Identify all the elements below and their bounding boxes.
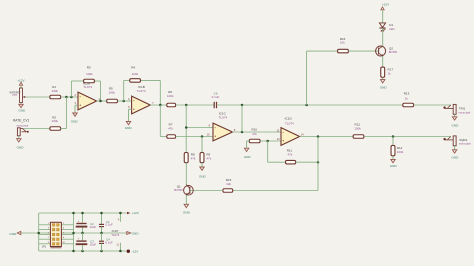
wire R12 to SQR jack	[364, 136, 451, 138]
svg-text:0.1uF: 0.1uF	[105, 223, 113, 227]
wire R11 branch	[268, 141, 286, 162]
wire C6 to rail	[217, 104, 404, 106]
node junction R14 branch	[392, 135, 395, 138]
svg-text:+12V: +12V	[382, 3, 390, 7]
capacitor C4	[99, 233, 113, 251]
svg-text:RATE_CV1: RATE_CV1	[13, 118, 29, 122]
svg-text:0.1uF: 0.1uF	[212, 95, 220, 99]
svg-text:10uF: 10uF	[90, 243, 97, 247]
wire header left vertical	[38, 213, 40, 251]
ground (SQR1)	[451, 146, 459, 160]
op-amp IC1C	[213, 112, 233, 141]
ground (Q1)	[184, 204, 188, 207]
wire header right vertical	[73, 213, 75, 251]
feedback wire R3	[71, 81, 100, 101]
svg-text:BC550: BC550	[174, 188, 183, 192]
svg-text:100k: 100k	[397, 150, 404, 154]
svg-text:47k: 47k	[191, 157, 196, 161]
svg-text:GND: GND	[199, 174, 207, 178]
node junction R4 branch	[122, 100, 125, 103]
op-amp IC1D	[281, 116, 300, 145]
node junction hdr right top	[72, 212, 75, 215]
svg-text:BC550: BC550	[389, 50, 398, 54]
node junction integrator out	[241, 104, 244, 107]
svg-text:GND: GND	[17, 146, 25, 150]
svg-text:GND: GND	[125, 126, 133, 130]
wire LED to Q2 collector	[382, 28, 384, 46]
wire Q1 emitter	[185, 195, 187, 204]
node junction R2 branch	[65, 96, 68, 99]
ground (TRI1)	[451, 114, 459, 127]
svg-text:TL074: TL074	[83, 85, 92, 89]
wire +12V rail	[39, 212, 127, 214]
connector RATE_CV1 jack	[13, 118, 29, 135]
node junction R3 return	[99, 100, 102, 103]
wire R16 to Q2 base	[348, 50, 378, 52]
wire Q2 emitter to R17	[382, 56, 384, 67]
wire R13 to TRI jack	[414, 104, 451, 106]
op-amp IC1B	[132, 85, 151, 114]
supply GND (rail)	[127, 231, 139, 235]
node junction IC1B out	[159, 104, 162, 107]
node junction hdr right mid	[72, 232, 75, 235]
node junction -in	[185, 126, 188, 129]
node junction C1 top	[100, 212, 103, 215]
ground (power left)	[9, 231, 20, 236]
svg-text:+12V: +12V	[132, 211, 140, 215]
resistor R9	[200, 137, 212, 163]
resistor R10 labels	[251, 128, 257, 136]
supply +12V (LED)	[381, 3, 390, 23]
svg-text:GND: GND	[244, 155, 252, 159]
wire R11 to out	[296, 161, 318, 163]
node junction out to C6	[241, 131, 244, 134]
svg-text:100k: 100k	[51, 89, 58, 93]
wire R6 to C6	[176, 104, 215, 106]
capacitor C6	[212, 91, 220, 108]
ground (IC1A +in)	[71, 105, 79, 123]
svg-text:GND: GND	[183, 210, 191, 214]
connector TRI1 jack	[443, 104, 471, 114]
capacitor C2	[76, 213, 97, 233]
node junction C1 mid	[100, 232, 103, 235]
svg-text:47k: 47k	[287, 153, 292, 157]
op-amp power IC1P	[111, 213, 120, 251]
resistor R14	[391, 137, 404, 156]
resistor R13	[403, 91, 414, 106]
wire IC1C out	[232, 131, 281, 133]
transistor Q2	[376, 46, 398, 56]
wire base rail	[233, 190, 318, 192]
ground (Q2)	[380, 77, 388, 89]
node junction IC1P bot	[119, 250, 122, 253]
svg-text:LED: LED	[389, 27, 394, 31]
resistor R10	[249, 139, 260, 143]
resistor R8	[184, 153, 196, 163]
svg-text:100k: 100k	[108, 90, 115, 94]
wire IC1D out	[300, 136, 353, 138]
svg-text:100k: 100k	[167, 94, 174, 98]
node junction R11/Q1 branch	[317, 161, 320, 164]
node junction R9 branch	[201, 135, 204, 138]
node junction GND left	[37, 232, 40, 235]
svg-text:1k: 1k	[405, 97, 409, 101]
svg-text:GND: GND	[132, 231, 140, 235]
wire R1 to IC1A	[61, 96, 78, 98]
svg-text:JP1: JP1	[42, 246, 47, 249]
wire GND rail	[21, 232, 127, 234]
svg-text:GND: GND	[71, 119, 79, 123]
svg-text:+12V: +12V	[17, 78, 25, 82]
svg-text:GND: GND	[380, 86, 388, 90]
node junction C2 mid	[81, 232, 84, 235]
node junction R3 branch	[70, 96, 73, 99]
resistor R15	[223, 178, 233, 192]
wire R5 to IC1B	[118, 100, 132, 102]
resistor R11	[286, 149, 296, 164]
svg-text:TL074: TL074	[285, 122, 294, 126]
svg-text:GND: GND	[451, 156, 459, 160]
node junction C2 top	[81, 212, 84, 215]
ground (R9)	[199, 163, 207, 179]
node junction hdr right bottom	[72, 250, 75, 253]
connector SQR1 jack	[443, 136, 471, 146]
resistor R1	[50, 85, 61, 99]
wire R7 to IC1C +in	[176, 136, 214, 138]
resistor R12	[353, 123, 364, 139]
wire jack to R2	[23, 128, 50, 130]
resistor R5	[107, 86, 118, 102]
svg-text:100k: 100k	[354, 127, 361, 131]
op-amp IC1A	[78, 81, 97, 110]
svg-text:GND: GND	[9, 232, 17, 236]
svg-text:GND: GND	[390, 164, 398, 168]
resistor R16	[338, 37, 349, 53]
svg-text:-12V: -12V	[132, 250, 139, 254]
ground (R14)	[390, 156, 398, 168]
supply +12V (pot)	[17, 78, 25, 88]
svg-text:R4: R4	[131, 66, 135, 70]
wire tri to R16	[307, 51, 338, 105]
svg-text:47k: 47k	[206, 157, 211, 161]
connector JP1 power header	[42, 222, 66, 248]
ground (pot)	[18, 103, 26, 113]
ground (IC1B +in)	[125, 109, 133, 130]
svg-text:TRI1: TRI1	[459, 106, 466, 110]
wire junction up to C6	[241, 105, 243, 132]
wire IC1C -in branch	[186, 105, 213, 153]
svg-text:R13: R13	[404, 91, 410, 95]
capacitor C1	[99, 213, 113, 233]
node junction R11 branch	[266, 140, 269, 143]
supply -12V (rail)	[127, 250, 140, 254]
svg-text:TL074: TL074	[219, 116, 228, 120]
ground (R10)	[244, 141, 252, 159]
svg-text:47k: 47k	[252, 132, 257, 136]
node junction to LED driver	[305, 104, 308, 107]
resistor R3	[84, 66, 95, 83]
svg-text:mono jack: mono jack	[459, 110, 472, 114]
wire IC1B out	[150, 104, 167, 106]
wire R15 to Q1 base	[190, 190, 223, 192]
ground (RATE_CV1)	[17, 136, 25, 150]
svg-text:GND: GND	[451, 124, 459, 128]
transistor Q1	[174, 184, 193, 195]
svg-text:R3: R3	[87, 66, 91, 70]
svg-text:10uF: 10uF	[90, 225, 97, 229]
svg-text:100k: 100k	[86, 72, 93, 76]
svg-text:0.1uF: 0.1uF	[105, 241, 113, 245]
wire IC1A out	[97, 100, 107, 102]
svg-text:POT: POT	[12, 94, 17, 97]
wire pot wiper to R1	[25, 96, 50, 98]
wire R7 branch	[160, 105, 167, 137]
node junction C1 bot	[100, 250, 103, 253]
svg-text:1k: 1k	[388, 72, 392, 76]
node junction to IC1C -in	[185, 104, 188, 107]
node junction C2 bot	[81, 250, 84, 253]
wire R8 to Q1 collector	[185, 163, 187, 185]
capacitor C3	[76, 233, 97, 251]
svg-text:100k: 100k	[132, 72, 139, 76]
svg-text:IC1D: IC1D	[285, 116, 293, 120]
wire R2 to node	[61, 97, 67, 129]
svg-text:47k: 47k	[168, 126, 173, 130]
node junction IC1P top	[119, 212, 122, 215]
svg-text:TL074: TL074	[137, 89, 146, 93]
resistor R17	[381, 67, 394, 77]
wire sq feedback vertical	[317, 137, 319, 191]
svg-text:GND: GND	[18, 108, 26, 112]
wire R10 to IC1D +in	[260, 140, 281, 142]
feedback wire R4	[124, 80, 161, 105]
wire -12V rail	[39, 250, 127, 252]
LED D1	[379, 23, 394, 32]
supply +12V (rail)	[127, 211, 140, 215]
svg-text:TL074: TL074	[111, 233, 120, 237]
node junction sq feedback	[317, 135, 320, 138]
svg-text:mono jack: mono jack	[16, 124, 29, 128]
resistor R6	[167, 90, 176, 107]
resistor R2	[50, 115, 61, 130]
resistor R7	[167, 123, 176, 139]
svg-text:10k: 10k	[226, 182, 231, 186]
svg-text:mono jack: mono jack	[459, 142, 472, 146]
resistor R4	[130, 66, 141, 83]
svg-text:100k: 100k	[51, 119, 58, 123]
svg-text:10k: 10k	[340, 41, 345, 45]
potentiometer RATEPOT	[10, 88, 27, 103]
wire header pin stubs	[39, 225, 74, 244]
